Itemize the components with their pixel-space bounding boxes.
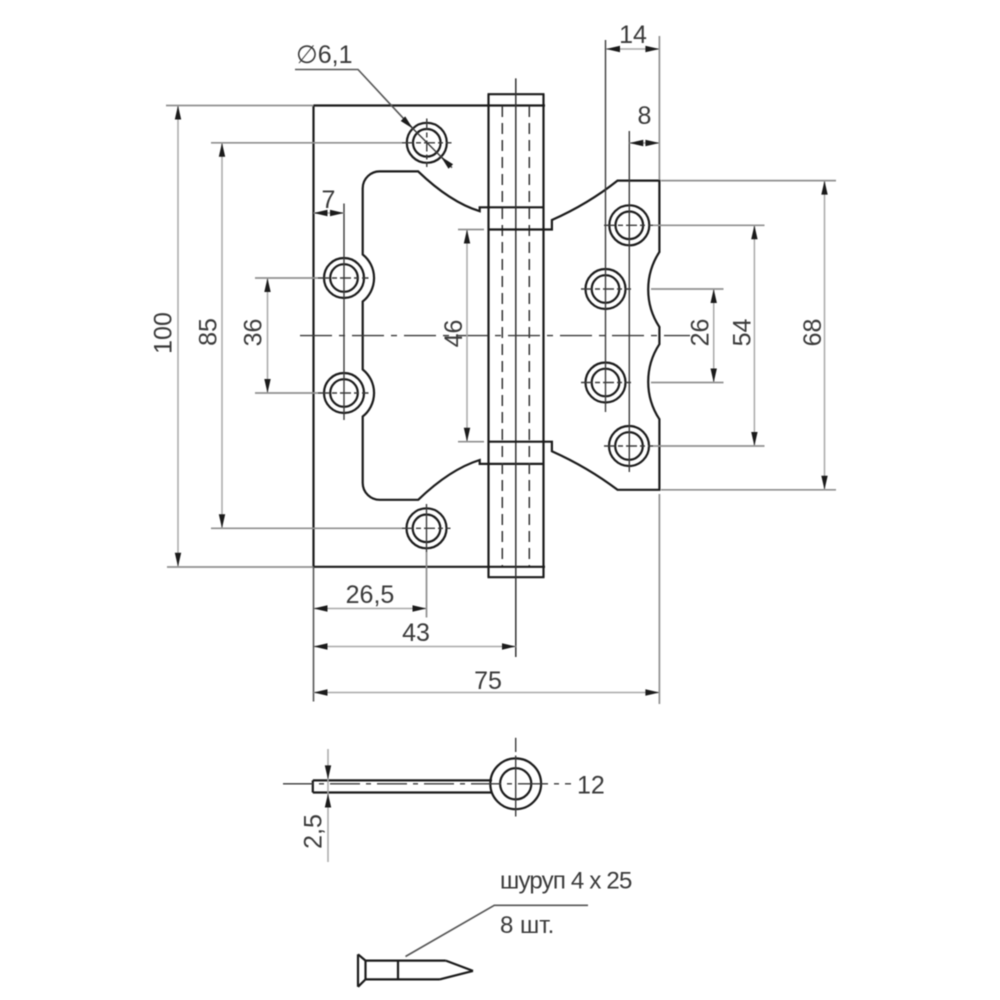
dimension 54 <box>653 225 765 446</box>
svg-text:8 шт.: 8 шт. <box>500 912 554 939</box>
screw leader line <box>406 905 589 956</box>
hole H3' right leaf <box>581 363 631 403</box>
side view plate <box>313 780 493 792</box>
hole H2 left leaf <box>318 258 369 298</box>
dimension 100 <box>150 106 314 568</box>
right holes column centerlines <box>605 40 607 412</box>
dimension 68 <box>661 181 836 490</box>
label diameter 6,1 with leader <box>295 41 453 169</box>
svg-text:100: 100 <box>150 312 178 354</box>
dimension 2,5 <box>300 749 332 862</box>
dimension 26 <box>651 289 724 383</box>
hole H1' right leaf <box>604 205 653 245</box>
side view centerline <box>283 783 571 785</box>
svg-text:∅6,1: ∅6,1 <box>296 41 353 69</box>
left leaf window cutout <box>363 171 544 499</box>
barrel axis vertical <box>515 78 517 657</box>
hole H3 left leaf <box>318 373 369 413</box>
centerline horizontal axis <box>300 335 690 337</box>
svg-text:68: 68 <box>799 319 827 347</box>
svg-text:12: 12 <box>577 772 605 800</box>
dimension 75 <box>314 494 660 704</box>
svg-text:46: 46 <box>440 320 468 348</box>
svg-text:шуруп 4 x 25: шуруп 4 x 25 <box>500 868 632 895</box>
dimension 43 <box>314 619 517 650</box>
dimension 8 <box>629 102 659 146</box>
hole H1 left leaf <box>402 119 452 168</box>
dimension 14 <box>606 21 659 180</box>
svg-text:26: 26 <box>687 319 715 347</box>
dimension 36 <box>240 278 319 393</box>
screw <box>358 954 473 987</box>
svg-text:7: 7 <box>322 186 336 214</box>
side view barrel circle <box>490 738 541 817</box>
svg-text:36: 36 <box>240 319 268 347</box>
svg-text:54: 54 <box>729 319 757 347</box>
dimension 26,5 <box>314 552 427 618</box>
dimension 46 <box>440 230 484 442</box>
left holes column centerline <box>343 204 345 421</box>
svg-text:75: 75 <box>474 667 502 695</box>
dimension 85 <box>195 143 403 529</box>
svg-text:26,5: 26,5 <box>346 581 395 609</box>
hole H2' right leaf <box>581 269 631 309</box>
left leaf outline <box>314 106 546 567</box>
svg-text:2,5: 2,5 <box>300 814 328 849</box>
right leaf outline <box>489 181 659 490</box>
hole H4 left leaf <box>402 504 451 552</box>
svg-text:85: 85 <box>195 318 223 346</box>
barrel <box>488 94 545 577</box>
dimension 7 <box>314 186 345 216</box>
hole H4' right leaf <box>604 426 653 466</box>
svg-text:14: 14 <box>619 21 647 49</box>
svg-text:8: 8 <box>638 102 652 130</box>
svg-text:43: 43 <box>402 619 430 647</box>
